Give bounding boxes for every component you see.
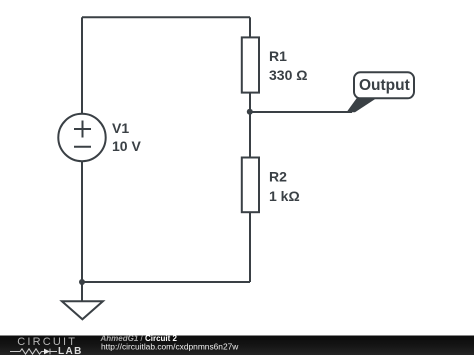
svg-text:R1: R1: [269, 48, 287, 64]
junction node at bottom ground net: [79, 279, 85, 285]
wire bottom horizontal (node to R2 bottom): [82, 281, 250, 283]
wire right top (top wire to R1): [249, 17, 251, 37]
ground: [62, 301, 103, 319]
junction node at output: [247, 109, 253, 115]
svg-text:http://circuitlab.com/cxdpnmns: http://circuitlab.com/cxdpnmns6n27w: [101, 341, 239, 351]
wire R1 bottom to output node: [249, 93, 251, 112]
logo resistor-diode symbol: [10, 349, 57, 355]
svg-text:Output: Output: [359, 77, 410, 94]
svg-text:10 V: 10 V: [112, 138, 141, 154]
svg-text:R2: R2: [269, 168, 287, 184]
wire node to ground: [81, 282, 83, 301]
wire output node to R2 top: [249, 112, 251, 158]
output callout bubble: [354, 72, 414, 98]
voltage source V1: [58, 114, 105, 161]
wire V1 bottom to bottom node: [81, 161, 83, 282]
wire top (V1 top to R1 top): [82, 16, 250, 18]
wire left vertical (top wire to V1): [81, 17, 83, 114]
svg-text:330 Ω: 330 Ω: [269, 67, 307, 83]
wire output node horizontal to callout: [250, 111, 352, 113]
svg-text:LAB: LAB: [58, 346, 83, 355]
resistor R1: [242, 37, 259, 92]
output callout tail: [347, 98, 378, 113]
footer bar: [0, 336, 474, 355]
resistor R2: [242, 158, 259, 213]
wire R2 bottom to bottom wire: [249, 212, 251, 282]
svg-text:1 kΩ: 1 kΩ: [269, 188, 300, 204]
svg-text:V1: V1: [112, 120, 129, 136]
